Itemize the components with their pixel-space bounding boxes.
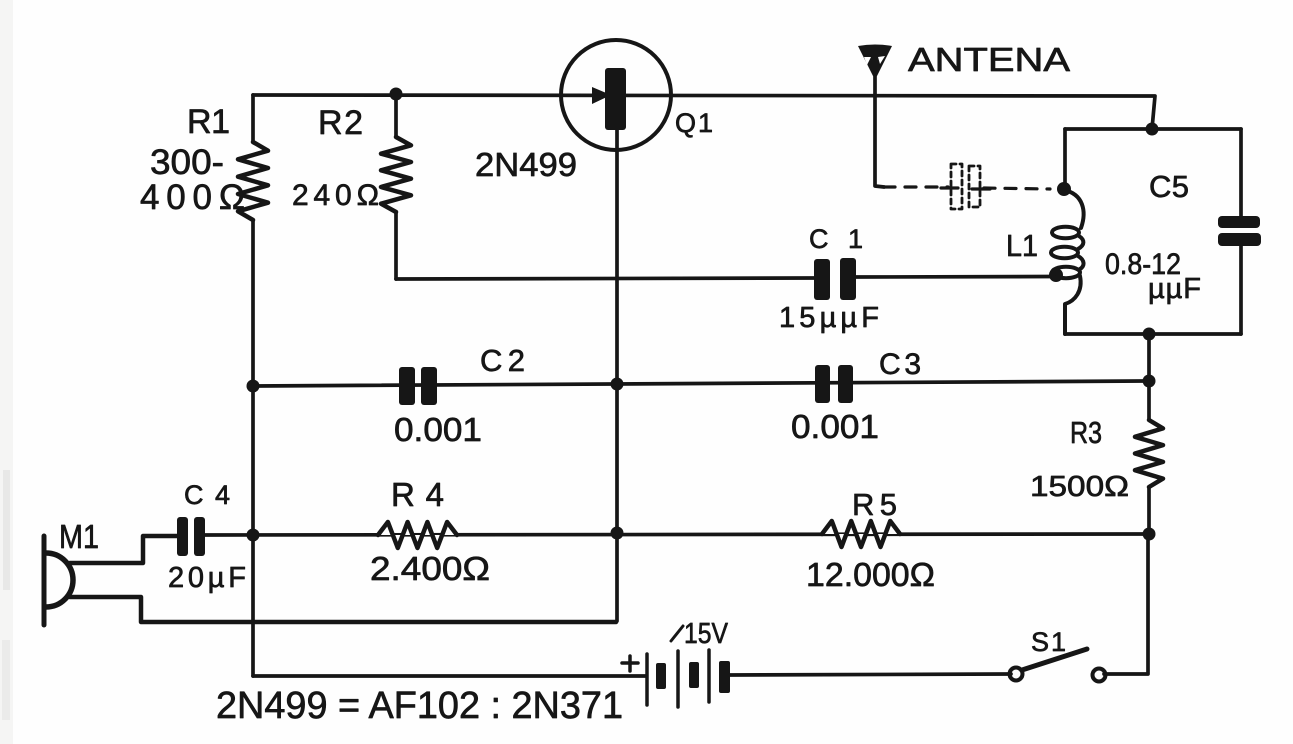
- svg-text:300-: 300-: [150, 143, 224, 182]
- node C2 left: [247, 380, 260, 393]
- svg-text:R4: R4: [391, 476, 444, 513]
- transistor Q1: [561, 40, 671, 150]
- resistor R1: [238, 95, 268, 676]
- node collector mid: [611, 378, 624, 391]
- wire R2 to C1: [396, 278, 814, 279]
- svg-text:C2: C2: [480, 343, 525, 378]
- wire dashed to L1: [984, 188, 1050, 189]
- node L1 top: [1057, 182, 1071, 196]
- tank circuit box C5: [1065, 129, 1241, 334]
- svg-text:R3: R3: [1070, 415, 1102, 450]
- resistor R4: [378, 522, 457, 548]
- svg-text:2.400Ω: 2.400Ω: [370, 550, 490, 587]
- svg-text:2N499 = AF102 : 2N371: 2N499 = AF102 : 2N371: [216, 685, 623, 727]
- wire trimmer crossing dashes: [941, 186, 958, 189]
- svg-text:1500Ω: 1500Ω: [1030, 471, 1129, 503]
- microphone M1: [44, 536, 616, 625]
- battery B1: [647, 650, 730, 707]
- svg-text:R2: R2: [318, 104, 363, 142]
- wire C1 to L1: [856, 275, 1054, 279]
- battery plus sign: [622, 656, 638, 671]
- wire dashed antenna coupling: [884, 185, 948, 188]
- wire switch to R3 line: [1104, 534, 1148, 674]
- capacitor C4: [177, 517, 205, 556]
- svg-text:15µµF: 15µµF: [779, 302, 879, 334]
- paper margin shading: [0, 0, 13, 744]
- wire box bottom to C3 line: [1147, 334, 1151, 381]
- svg-text:ANTENA: ANTENA: [908, 41, 1070, 78]
- switch S1: [1010, 649, 1106, 682]
- antenna symbol: [858, 45, 892, 188]
- svg-text:R1: R1: [187, 103, 230, 141]
- inductor L1: [1051, 190, 1084, 334]
- svg-text:M1: M1: [59, 518, 99, 555]
- wire top rail: [253, 95, 1155, 129]
- wire bottom battery rail: [253, 674, 646, 678]
- node R2 top junction: [390, 88, 403, 101]
- node box top: [1146, 123, 1159, 136]
- svg-text:S1: S1: [1031, 627, 1066, 657]
- svg-text:µµF: µµF: [1148, 273, 1201, 305]
- svg-text:L1: L1: [1006, 228, 1038, 263]
- node collector R4 junction: [611, 527, 624, 540]
- node R3 bottom junction: [1143, 528, 1156, 541]
- capacitor C3: [815, 365, 853, 403]
- svg-text:C3: C3: [879, 348, 921, 381]
- svg-text:12.000Ω: 12.000Ω: [806, 556, 935, 593]
- node R1 line junction: [247, 529, 260, 542]
- capacitor C1: [814, 258, 856, 300]
- svg-text:2N499: 2N499: [475, 146, 577, 183]
- svg-text:R5: R5: [852, 487, 897, 522]
- node L1 bottom: [1049, 268, 1063, 282]
- wire R4 R5 line: [205, 534, 1149, 535]
- capacitor C5 plates: [1218, 216, 1261, 246]
- capacitor trimmer (dashed): [951, 164, 980, 209]
- resistor R2: [381, 94, 411, 279]
- svg-text:C1: C1: [809, 224, 863, 254]
- svg-text:240Ω: 240Ω: [292, 179, 379, 212]
- resistor R3: [1135, 381, 1163, 534]
- node C3 right: [1143, 375, 1156, 388]
- svg-text:0.001: 0.001: [394, 411, 482, 448]
- node box bottom: [1143, 328, 1156, 341]
- svg-text:0.001: 0.001: [791, 408, 879, 445]
- wire Q1 collector down: [615, 130, 619, 621]
- wire C2 C3 line: [253, 381, 1149, 386]
- wire battery to switch: [730, 674, 1011, 675]
- svg-text:C5: C5: [1149, 169, 1189, 204]
- svg-text:15V: 15V: [684, 618, 729, 650]
- svg-text:20µF: 20µF: [168, 562, 246, 594]
- resistor R5: [822, 521, 900, 547]
- svg-text:400Ω: 400Ω: [140, 178, 245, 217]
- capacitor C2: [399, 367, 437, 405]
- svg-text:Q1: Q1: [675, 108, 713, 138]
- svg-text:C4: C4: [184, 480, 230, 510]
- value 15V: [671, 626, 683, 641]
